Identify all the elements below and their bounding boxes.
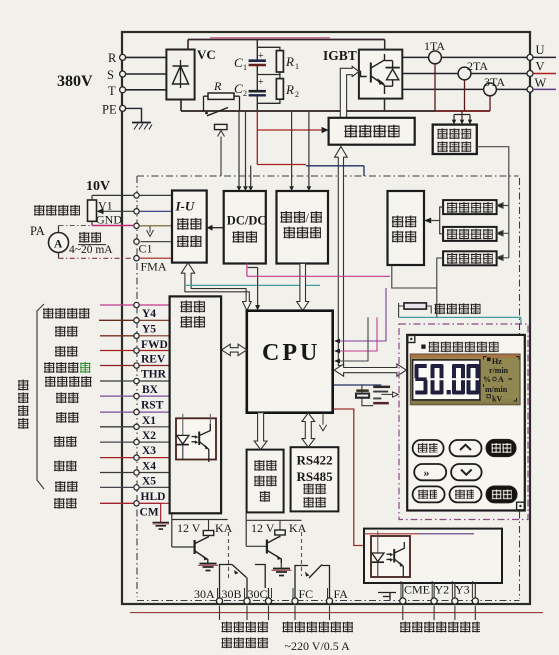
svg-text:12 V: 12 V <box>251 521 275 535</box>
seven-segment 50.00 <box>415 364 480 395</box>
resistor R1 <box>257 47 299 72</box>
thermal protection 过热保护 <box>399 303 481 318</box>
terminal V <box>527 60 556 77</box>
optocoupler in isolation block <box>176 414 216 462</box>
svg-text:RS485: RS485 <box>297 469 334 484</box>
svg-text:KA: KA <box>215 521 233 535</box>
svg-text:30C: 30C <box>248 587 268 601</box>
terminal FC <box>292 587 313 604</box>
terminal 10V <box>134 193 139 198</box>
svg-text:PA: PA <box>30 224 45 238</box>
button 复位 <box>413 486 445 502</box>
CPU block <box>247 311 333 413</box>
bus feeders to power blocks <box>239 111 309 186</box>
svg-text:=: = <box>508 375 513 384</box>
overcurrent protection block 过流保护 <box>443 200 497 214</box>
svg-text:12 V: 12 V <box>177 521 201 535</box>
svg-text:3TA: 3TA <box>484 75 505 89</box>
svg-text:%: % <box>483 375 491 384</box>
label 转速反馈 <box>43 308 90 319</box>
KA2 mechanical link (dashed) <box>301 532 303 576</box>
svg-text:30B: 30B <box>222 587 242 601</box>
current signal pickup block 电流信号取值 <box>433 125 477 154</box>
button fast-forward <box>414 464 446 480</box>
hollow arrow CPU to drive circuit <box>335 147 348 366</box>
transistor Q1 <box>195 537 209 563</box>
rectifier VC <box>166 47 215 100</box>
open collector output block <box>364 529 502 583</box>
svg-text:10V: 10V <box>86 179 110 194</box>
wire pot wiper to V1 terminal <box>104 210 134 212</box>
IGBT freewheel diode <box>385 61 400 87</box>
transistor Q2 <box>267 536 281 563</box>
drive hollow arrow to IGBT gate <box>340 66 359 117</box>
CT 1TA <box>424 39 445 64</box>
svg-text:FA: FA <box>334 587 349 601</box>
terminal PE <box>102 103 126 117</box>
terminal W <box>527 76 556 92</box>
signal ground arrow near C1 <box>147 226 154 237</box>
I-U converter block <box>172 191 207 263</box>
svg-text:1: 1 <box>295 62 299 71</box>
crystal oscillator circuit <box>334 385 399 406</box>
terminal R <box>108 51 126 65</box>
CT secondary drops <box>435 64 490 111</box>
svg-text:X1: X1 <box>142 415 156 427</box>
wire drive supply (red) <box>257 111 321 165</box>
svg-text:THR: THR <box>141 369 167 381</box>
svg-text:IGBT: IGBT <box>323 48 357 63</box>
label 点动 <box>55 481 78 492</box>
isolation block 隔离电路 <box>170 296 222 513</box>
svg-text:HLD: HLD <box>141 491 166 503</box>
svg-text:X4: X4 <box>142 461 156 473</box>
label 正转 <box>55 326 78 337</box>
svg-text:C1: C1 <box>139 242 153 256</box>
svg-text:1: 1 <box>243 63 247 72</box>
label 开路集电极输出 <box>400 622 480 633</box>
small output arrow below CPU <box>319 413 326 431</box>
IGBT transistor symbol <box>361 54 385 94</box>
svg-text:m/min: m/min <box>485 385 508 394</box>
wires detectors to protection circuit <box>431 207 443 234</box>
svg-text:S: S <box>107 68 114 82</box>
hollow arrow CPU-RS422 (bidirectional) <box>302 413 315 447</box>
vertical label 输入控制 <box>18 380 29 429</box>
svg-text:CME: CME <box>404 583 430 597</box>
svg-text:Y5: Y5 <box>142 324 156 336</box>
label separators CME/Y2/Y3 <box>401 581 472 598</box>
resistor R2 <box>257 72 299 103</box>
output stubs to terminals <box>403 583 476 598</box>
svg-text:RS422: RS422 <box>297 453 333 468</box>
svg-text:FC: FC <box>299 587 314 601</box>
CT 3TA <box>484 75 506 96</box>
svg-text:»: » <box>424 466 430 480</box>
relay coil KA1 <box>208 520 210 531</box>
svg-text:V1: V1 <box>98 199 113 213</box>
button up <box>450 440 482 456</box>
wire CPU signals into block <box>364 533 420 535</box>
button 运行 (run) <box>486 486 517 502</box>
svg-text:FWD: FWD <box>141 339 168 351</box>
svg-text:REV: REV <box>141 354 166 366</box>
protection circuit block 保护电路 <box>388 191 425 265</box>
svg-text:Y2: Y2 <box>435 583 450 597</box>
svg-text:~220 V/0.5 A: ~220 V/0.5 A <box>285 639 351 653</box>
svg-text:T: T <box>108 84 116 98</box>
digital input terminals Y4..CM <box>134 302 139 506</box>
wire VC top to DC bus <box>187 40 189 51</box>
svg-text:R: R <box>285 54 294 69</box>
display units legend <box>483 357 519 404</box>
svg-text:R: R <box>285 82 294 97</box>
DC/DC power block <box>224 191 267 264</box>
magenta rail DC/DC to right <box>247 264 390 277</box>
svg-text:PE: PE <box>102 103 117 117</box>
panel screw top-left <box>408 336 415 343</box>
svg-text:X2: X2 <box>142 430 156 442</box>
label 自由运转 <box>45 376 92 387</box>
terminal FMA <box>134 256 167 274</box>
svg-text:RST: RST <box>141 400 164 412</box>
hollow arrow CPU to operator panel (bidirectional) <box>334 364 406 376</box>
svg-text:2: 2 <box>243 89 247 98</box>
terminal 30C <box>248 587 272 604</box>
chassis ground near CME <box>378 593 396 601</box>
DC bus minus rail <box>181 110 435 112</box>
terminal Y3 <box>452 583 470 605</box>
svg-text:R: R <box>108 51 117 65</box>
wire coil actuate arrow <box>218 131 225 177</box>
wire red-navy control feed <box>257 164 306 166</box>
label 外部报警 <box>44 362 91 373</box>
terminal T <box>108 84 126 98</box>
wire T phase <box>126 89 167 91</box>
svg-text:2: 2 <box>295 90 299 99</box>
current limit block 电流限制 <box>443 227 497 241</box>
display bezel (LCD mottled) <box>410 354 520 405</box>
label 接地 <box>54 498 77 509</box>
overload to protection routing <box>392 258 443 317</box>
ammeter PA <box>30 224 134 258</box>
label 反转 <box>55 346 78 357</box>
wire pot top to 10V terminal <box>92 194 134 196</box>
potentiometer V1 频率设定 <box>34 195 122 226</box>
ground PE <box>132 123 152 130</box>
KA1 mechanical link (dashed) <box>228 532 230 580</box>
DC bus plus rail <box>188 39 385 41</box>
svg-text:/: / <box>306 211 310 225</box>
svg-text:Y3: Y3 <box>455 583 470 597</box>
terminal aux <box>472 598 478 604</box>
wire S phase <box>126 73 167 75</box>
IGBT module <box>323 40 402 112</box>
svg-text:C: C <box>234 55 243 70</box>
svg-text:VC: VC <box>197 47 216 62</box>
wire U phase <box>402 56 527 58</box>
wire pot bottom to GND terminal (magenta) <box>92 225 134 227</box>
button down <box>451 464 482 480</box>
svg-text:BX: BX <box>142 384 159 396</box>
terminal S <box>107 68 126 82</box>
svg-text:X3: X3 <box>142 445 156 457</box>
wire PE to ground <box>126 108 142 122</box>
teal thermal line <box>399 317 521 324</box>
optocoupler output <box>371 531 410 577</box>
teal signal line <box>186 284 320 286</box>
svg-text:r/min: r/min <box>489 366 509 375</box>
operator panel dash-dot boundary <box>399 324 528 520</box>
bypass contactor switch <box>205 108 228 116</box>
button 停止 (stop) <box>486 440 516 457</box>
hollow arrow path I-U and CPU <box>181 263 251 311</box>
ground Q2 emitter <box>272 563 292 576</box>
label DC 4-20mA <box>69 232 113 256</box>
overload protection block 过载保护 <box>443 251 497 265</box>
display digits window <box>413 360 480 400</box>
arrows current column into protection blocks <box>497 203 509 261</box>
terminal stubs below frame <box>220 606 476 620</box>
svg-text:CPU: CPU <box>262 340 320 366</box>
button 功能 <box>450 486 482 502</box>
overvoltage/undervoltage block 过压/欠压保护 <box>277 191 329 264</box>
wire V phase <box>402 73 527 75</box>
control-board dash-dot boundary <box>137 176 520 601</box>
terminal GND <box>134 223 139 228</box>
capacitor C1 <box>234 40 266 75</box>
svg-text:U: U <box>536 43 545 57</box>
wire R phase <box>126 56 167 58</box>
svg-text:DC/DC: DC/DC <box>227 214 267 228</box>
communication block RS422/RS485 <box>291 447 339 511</box>
svg-text:kV: kV <box>492 395 502 404</box>
terminal CME <box>400 583 430 605</box>
wires CT to pickup block with arrows <box>454 111 470 120</box>
terminal FA <box>326 587 348 604</box>
ground Q1 emitter <box>198 564 218 571</box>
label 运转状态输出 <box>283 622 354 633</box>
svg-text:CM: CM <box>140 507 159 519</box>
svg-text:Y4: Y4 <box>142 308 156 320</box>
digital input wires outside <box>99 305 134 503</box>
terminal U <box>527 43 556 60</box>
svg-text:A: A <box>498 375 504 384</box>
terminal name labels <box>140 308 168 519</box>
terminal Y2 <box>431 583 449 605</box>
svg-text:C: C <box>234 81 243 96</box>
label 复位 <box>56 392 79 403</box>
CM terminal ground <box>139 503 169 529</box>
terminal V1 <box>134 209 139 214</box>
hollow arrow OV/UV to CPU <box>297 264 309 311</box>
svg-text:V: V <box>536 60 545 74</box>
CT 2TA <box>458 59 488 80</box>
run status contacts FC/FA <box>295 565 330 599</box>
label separators 30A/30B/30C <box>218 588 272 598</box>
contactor coil KM <box>215 124 228 129</box>
label 低速 <box>54 460 77 471</box>
svg-text:4~20 mA: 4~20 mA <box>69 244 113 256</box>
relay driver 2: 12V supply wire <box>246 512 306 546</box>
svg-text:FMA: FMA <box>141 260 167 274</box>
fault relay contacts 30A/30B/30C <box>220 565 269 599</box>
wires analog terminals to I-U block <box>139 195 172 258</box>
wire CPU to collector-output block (red) <box>334 409 365 546</box>
wire pickup output to protection column <box>477 147 509 258</box>
hollow arrow CPU to program memory <box>254 413 267 450</box>
hollow arrow isolation to CPU (bidirectional) <box>222 344 247 355</box>
svg-text:Hz: Hz <box>492 357 502 366</box>
terminal C1 <box>134 239 153 256</box>
svg-text:X5: X5 <box>142 476 156 488</box>
terminal 30B <box>222 587 251 604</box>
enclosure frame <box>122 32 530 604</box>
svg-text:R: R <box>213 79 222 93</box>
panel title 运转方式显示 <box>421 341 498 352</box>
input control brace <box>37 304 44 489</box>
arrow DC/DC to CPU <box>248 268 260 311</box>
digital input wires inside to isolation block <box>139 305 169 503</box>
svg-text:GND: GND <box>96 213 122 227</box>
relay driver 1: 12V supply wire <box>172 513 233 547</box>
svg-text:30A: 30A <box>194 587 215 601</box>
button 程序 <box>413 440 444 456</box>
svg-text:380V: 380V <box>57 73 93 90</box>
svg-text:+: + <box>258 77 264 88</box>
arrow DC/DC to I-U <box>213 227 224 229</box>
svg-text:A: A <box>54 239 63 251</box>
label 中速 <box>54 436 77 447</box>
precharge resistor R <box>204 79 240 111</box>
panel screw bottom-right <box>517 502 525 510</box>
svg-text:W: W <box>535 76 547 90</box>
capacitor C2 <box>234 75 266 112</box>
wires protection area to CPU right <box>340 288 386 361</box>
svg-text:I-U: I-U <box>175 199 195 214</box>
drive circuit block 驱动电路 <box>329 118 415 145</box>
label 高速 <box>56 412 79 423</box>
operator panel body <box>407 335 525 511</box>
label 故障输出/接点容量 <box>222 622 269 633</box>
terminal 30A <box>194 587 223 604</box>
scan crease line <box>130 612 543 614</box>
program memory block 程序存储器 <box>247 450 284 513</box>
wire VC bottom <box>180 100 182 112</box>
svg-text:KA: KA <box>289 521 307 535</box>
wire W phase <box>402 88 527 90</box>
